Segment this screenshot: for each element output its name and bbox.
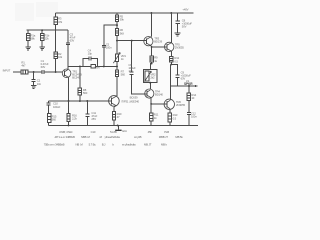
wire TR6 emitter down bbox=[169, 109, 171, 113]
wire R11 to rail bbox=[150, 121, 152, 126]
capacitor C8 supply filter bbox=[177, 13, 179, 21]
capacitor C10 feedback bbox=[46, 103, 50, 105]
svg-text:75Bx a-m 34BBxB: 75Bx a-m 34BBxB bbox=[44, 142, 65, 146]
node base bias junction bbox=[55, 71, 57, 73]
wire TR5 emitter down bbox=[170, 51, 172, 57]
node divider junction bbox=[41, 29, 43, 31]
capacitor C4 plates bbox=[89, 57, 91, 61]
svg-text:100R: 100R bbox=[93, 65, 99, 69]
svg-text:51.8B: 51.8B bbox=[110, 130, 117, 134]
svg-text:INPUT: INPUT bbox=[3, 69, 11, 73]
wire divider node down to R4 bbox=[55, 30, 57, 52]
ground under C8 bbox=[175, 33, 181, 36]
svg-text:25V: 25V bbox=[91, 117, 96, 121]
svg-text:63V: 63V bbox=[70, 39, 75, 43]
resistor R3 bbox=[54, 17, 57, 25]
resistor R1 series input bbox=[21, 70, 28, 74]
wire C9 to speaker line bbox=[170, 78, 197, 86]
svg-text:C10: C10 bbox=[91, 130, 96, 134]
wire R15 to rail bbox=[47, 122, 49, 125]
resistor R1 bbox=[26, 33, 29, 40]
node output junction bbox=[170, 63, 172, 65]
node rail-TR3 junction bbox=[150, 12, 152, 14]
resistor R5 bbox=[115, 15, 118, 22]
wire C2 to ground bbox=[33, 81, 35, 85]
wire R7 to TR2 collector bbox=[116, 76, 118, 96]
wire TR3 collector to rail bbox=[150, 35, 151, 38]
wire TR4 base bbox=[152, 46, 165, 48]
node VAS collector junction bbox=[116, 65, 118, 67]
transistor TR5 upper output bbox=[165, 42, 174, 51]
svg-text:50V: 50V bbox=[182, 25, 187, 29]
capacitor C2 shunt bbox=[32, 80, 36, 82]
wire R2 hang bbox=[41, 30, 43, 33]
resistor R16 bbox=[67, 113, 70, 121]
svg-text:10n: 10n bbox=[37, 82, 42, 86]
wire TR6 base bbox=[151, 103, 164, 105]
wire input lead bbox=[13, 71, 21, 73]
svg-text:47dB; 47kΩ:: 47dB; 47kΩ: bbox=[59, 130, 73, 134]
wire TR6 collector to output node bbox=[169, 64, 171, 100]
transistor TR2 VAS bbox=[109, 96, 120, 107]
transistor TR4 lower driver bbox=[145, 89, 154, 98]
ground under R2 bbox=[39, 47, 44, 50]
svg-text:/TIP31 ,MJE340: /TIP31 ,MJE340 bbox=[121, 100, 140, 104]
wire C10 to R15 bbox=[47, 105, 49, 114]
wire C6 to TR4 base bbox=[132, 74, 145, 93]
wire output node to C9 bbox=[171, 64, 177, 75]
capacitor C9 output electrolytic bbox=[176, 75, 180, 77]
wire rail left corner down to R3 bbox=[55, 13, 57, 17]
wire C2 hang bbox=[33, 72, 35, 79]
node R8 bottom junction bbox=[79, 100, 81, 102]
resistor R2 bbox=[40, 33, 43, 40]
svg-text:LS: LS bbox=[186, 79, 189, 83]
node rail R16 junction bbox=[68, 124, 70, 126]
wire TR1 emitter down bbox=[68, 77, 70, 101]
wire R13 to rail bbox=[169, 122, 171, 125]
wire R16 column bbox=[68, 101, 70, 125]
capacitor C12 zobel bbox=[187, 112, 191, 114]
wire C12 to rail bbox=[188, 115, 190, 126]
svg-text:3k9: 3k9 bbox=[120, 31, 125, 35]
svg-text:2N3055: 2N3055 bbox=[175, 46, 184, 50]
resistor R7 bbox=[115, 70, 118, 77]
wire C5 column bbox=[104, 25, 117, 66]
wire C1 to TR1 base bbox=[44, 71, 63, 73]
svg-text:560: 560 bbox=[121, 73, 126, 77]
transistor TR3 driver bbox=[144, 37, 153, 46]
wire TR2 collector up bbox=[115, 95, 118, 98]
svg-text:wt y/tB: wt y/tB bbox=[134, 135, 142, 139]
transistor TR1 bbox=[62, 69, 71, 78]
wire feedback node bbox=[48, 100, 108, 102]
wire C6 column upper bbox=[131, 41, 133, 72]
svg-text:BD140: BD140 bbox=[155, 93, 163, 97]
resistor R4 bbox=[54, 52, 57, 59]
svg-text:MB b: MB b bbox=[161, 142, 168, 146]
svg-text:MBB JT: MBB JT bbox=[159, 135, 168, 139]
svg-text:0.5: 0.5 bbox=[173, 116, 177, 120]
svg-text:10p: 10p bbox=[88, 52, 93, 56]
svg-text:100uF: 100uF bbox=[53, 105, 61, 109]
resistor R15 feedback bbox=[48, 114, 51, 123]
node TR1 emitter junction bbox=[68, 100, 70, 102]
node bootstrap junction bbox=[103, 65, 105, 67]
node TR3 base branch bbox=[116, 40, 118, 42]
resistor R9 TR3 emitter bbox=[150, 56, 153, 62]
preset VR2 loop bbox=[144, 69, 157, 82]
ground under R1 bbox=[25, 47, 30, 50]
wire R2 to ground bbox=[41, 40, 43, 47]
svg-text:ytheadhdbdta: ytheadhdbdta bbox=[105, 135, 121, 139]
node rail-TR5 junction bbox=[170, 12, 172, 14]
svg-text:10V: 10V bbox=[128, 69, 133, 73]
svg-text:w y/badhdta: w y/badhdta bbox=[122, 142, 136, 146]
capacitor C11 bbox=[85, 114, 89, 116]
svg-text:2N3055: 2N3055 bbox=[176, 103, 185, 107]
wire TR5 collector to rail bbox=[170, 13, 172, 43]
svg-text:2,2k: 2,2k bbox=[72, 117, 77, 121]
wire C3 drop from divider node bbox=[67, 30, 69, 42]
wire VR1 to R7 bbox=[116, 61, 118, 70]
wire TR3 emitter down bbox=[150, 44, 151, 47]
wire rail to R5 bbox=[116, 13, 118, 15]
node TR4 base junction bbox=[151, 46, 153, 48]
wire R3 to divider node bbox=[55, 25, 57, 31]
node zobel junction bbox=[188, 85, 190, 87]
wire TR3 base line bbox=[117, 40, 144, 42]
wire R14 to C12 bbox=[188, 100, 190, 112]
svg-text:100n: 100n bbox=[191, 115, 197, 119]
svg-text:PLB: PLB bbox=[164, 130, 169, 134]
svg-text:0.5: 0.5 bbox=[174, 59, 178, 63]
resistor R5a in collector path bbox=[91, 65, 96, 69]
capacitor C1 series bbox=[42, 70, 44, 74]
node C11 junction bbox=[86, 100, 88, 102]
svg-text:560: 560 bbox=[52, 118, 57, 122]
resistor R13 TR6 emitter bbox=[168, 113, 171, 122]
capacitor C5 bbox=[102, 45, 106, 47]
svg-text:BC549: BC549 bbox=[72, 76, 80, 80]
resistor R8 bbox=[78, 88, 81, 95]
wire R9 to VR2 loop bbox=[151, 62, 153, 63]
svg-text:BD139: BD139 bbox=[154, 40, 162, 44]
node bootstrap branch bbox=[116, 24, 118, 26]
preset VR1 bbox=[113, 53, 120, 64]
wire VR2 top to TR3 emitter node bbox=[150, 64, 151, 70]
svg-text:63V: 63V bbox=[181, 77, 186, 81]
transistor TR6 lower output bbox=[164, 99, 174, 109]
svg-text:MB 5k: MB 5k bbox=[175, 135, 183, 139]
ground under C2 bbox=[31, 86, 36, 89]
wire TR2 emitter down bbox=[114, 106, 116, 107]
wire divider node horizontal bbox=[27, 29, 68, 31]
wire C8 to ground bbox=[177, 24, 179, 33]
svg-text:MB JT: MB JT bbox=[144, 142, 152, 146]
wire top supply rail bbox=[55, 12, 193, 14]
wire C3 to TR1 collector node bbox=[67, 45, 69, 70]
resistor R11 bbox=[150, 113, 153, 121]
svg-text:4k7: 4k7 bbox=[21, 64, 26, 68]
wire TR4 emitter down bbox=[150, 98, 152, 113]
svg-text:NB .M: NB .M bbox=[76, 142, 84, 146]
resistor R14 zobel bbox=[187, 93, 190, 101]
wire C11 column bbox=[86, 101, 88, 125]
wire R1 to ground bbox=[27, 40, 29, 47]
capacitor C3 bbox=[66, 43, 70, 45]
svg-text:560: 560 bbox=[83, 91, 88, 95]
node VR2 bottom junction bbox=[149, 82, 151, 84]
svg-text:2k2: 2k2 bbox=[150, 76, 155, 80]
node R8 top junction bbox=[79, 65, 81, 67]
node rail R10 junction bbox=[117, 124, 119, 126]
terminal speaker output bbox=[195, 85, 197, 87]
wire R5 to R6 bbox=[116, 22, 118, 29]
svg-text:100n: 100n bbox=[106, 46, 112, 50]
svg-text:E11: E11 bbox=[122, 129, 127, 133]
wire TR1 collector to VAS node bbox=[68, 65, 117, 67]
capacitor C6 bbox=[130, 72, 134, 74]
wire R12 to output node bbox=[170, 62, 172, 64]
resistor R6 bbox=[115, 28, 118, 35]
resistor R10 TR2 emitter bbox=[112, 112, 115, 120]
svg-text:63V: 63V bbox=[41, 65, 46, 69]
node TR6 base junction bbox=[150, 103, 152, 105]
wire C10 drop bbox=[47, 101, 49, 103]
svg-text:5.7 Bc: 5.7 Bc bbox=[89, 142, 97, 146]
wire R1 to C1 bbox=[28, 71, 42, 73]
wire R6 to VR1 bbox=[116, 36, 118, 55]
wire zobel drop bbox=[188, 86, 190, 93]
svg-text:-MT1 a-m 34BBxB: -MT1 a-m 34BBxB bbox=[54, 135, 75, 139]
wire bottom ground rail bbox=[48, 124, 198, 126]
node input shunt junction bbox=[33, 71, 35, 73]
wire R4 to base node bbox=[55, 59, 57, 72]
svg-text:+40V: +40V bbox=[182, 8, 188, 12]
svg-text:45F: 45F bbox=[148, 130, 153, 134]
capacitor C4 loop over R5a bbox=[83, 58, 98, 66]
resistor R12 emitter bbox=[170, 57, 173, 63]
wire VR2 bottom to TR4 collector bbox=[149, 83, 151, 90]
node VR2 top junction bbox=[151, 63, 153, 65]
svg-text:NBB .M: NBB .M bbox=[81, 135, 91, 139]
ground earth tab on rail bbox=[117, 125, 119, 129]
wire R10 to rail bbox=[113, 120, 115, 126]
node C6 branch bbox=[131, 40, 133, 42]
wire R8 column bbox=[79, 66, 81, 101]
wire R1 hang bbox=[27, 30, 29, 33]
